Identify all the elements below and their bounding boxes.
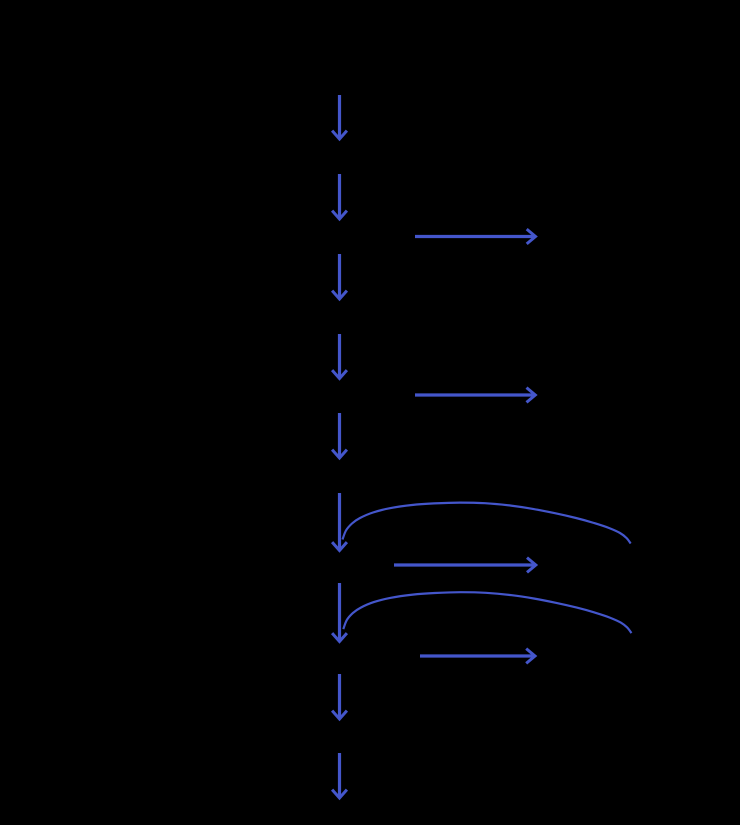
arrow side3 right bbox=[394, 558, 536, 573]
curved return arc lower bbox=[343, 592, 631, 633]
arrow side2 right bbox=[415, 388, 535, 403]
curved return arc upper bbox=[343, 503, 631, 544]
arrow step9 down bbox=[332, 753, 347, 798]
arrow step2 down bbox=[332, 174, 347, 219]
arrow step5 down bbox=[332, 413, 347, 458]
arrow step4 down bbox=[332, 334, 347, 379]
arrow step7 down bbox=[332, 583, 347, 642]
arrow step1 down bbox=[332, 95, 347, 139]
arrow side1 right bbox=[415, 229, 536, 244]
arrow step6 down bbox=[332, 493, 347, 551]
arrow step8 down bbox=[332, 674, 347, 719]
arrow side4 right bbox=[420, 649, 535, 664]
arrow step3 down bbox=[332, 254, 347, 299]
